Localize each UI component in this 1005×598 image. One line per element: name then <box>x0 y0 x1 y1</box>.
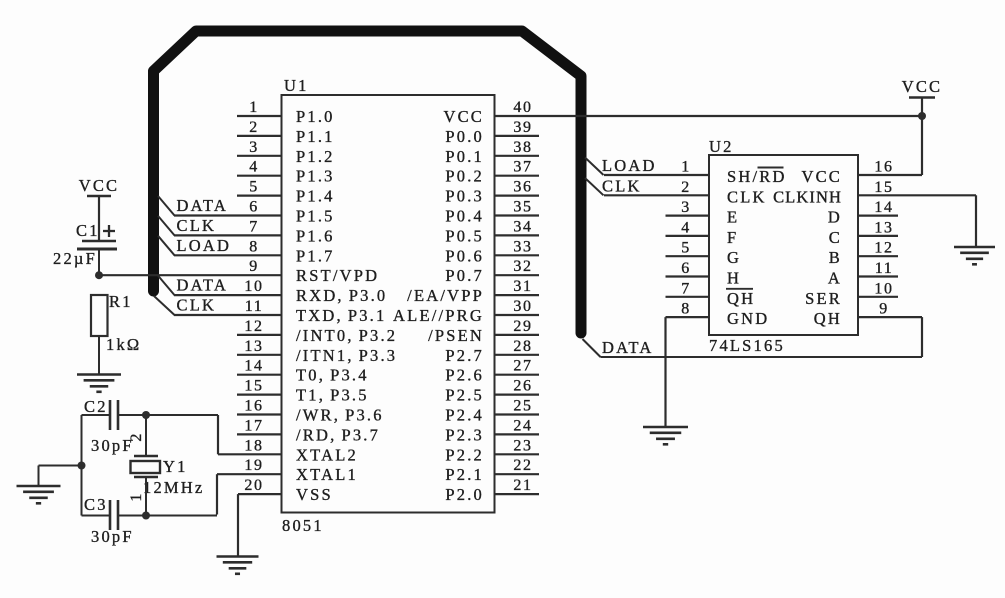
svg-text:9: 9 <box>879 301 889 318</box>
svg-text:31: 31 <box>513 278 532 295</box>
svg-text:40: 40 <box>513 99 532 116</box>
svg-text:GND: GND <box>727 309 769 328</box>
svg-text:8: 8 <box>681 301 691 318</box>
U2 pin 11 (A) <box>828 260 898 288</box>
node: rail/ground junction <box>78 462 86 470</box>
svg-text:/ITN1,P3.3: /ITN1,P3.3 <box>296 346 397 365</box>
svg-text:P0.1: P0.1 <box>445 147 484 166</box>
svg-text:QH: QH <box>727 289 755 308</box>
U1 pin 33 (P0.6) <box>445 238 539 265</box>
U1 pin 24 (P2.3) <box>445 417 539 444</box>
U1 pin 12 (/INT0,<tspan dx="5">P3.2</tspan>) <box>237 318 397 345</box>
svg-text:35: 35 <box>513 199 532 216</box>
svg-text:SER: SER <box>805 289 842 308</box>
svg-text:1: 1 <box>249 99 259 116</box>
svg-text:P2.6: P2.6 <box>445 366 484 385</box>
U1 pin 17 (/RD,<tspan dx="5">P3.7</tspan>) <box>237 417 380 444</box>
svg-text:9: 9 <box>249 258 259 275</box>
U1 pin 11 (TXD,<tspan dx="5">P3.1</tspan>) <box>174 298 386 325</box>
svg-text:P1.2: P1.2 <box>296 147 335 166</box>
svg-text:P1.4: P1.4 <box>296 187 335 206</box>
U1 pin 18 (XTAL2) <box>218 415 358 464</box>
svg-text:TXD,P3.1: TXD,P3.1 <box>296 306 386 325</box>
svg-text:P2.0: P2.0 <box>445 485 484 504</box>
svg-text:B: B <box>829 248 842 267</box>
svg-text:24: 24 <box>513 417 532 434</box>
U1 pin 26 (P2.5) <box>445 378 539 405</box>
svg-text:LOAD: LOAD <box>177 236 232 255</box>
svg-text:12MHz: 12MHz <box>143 478 204 497</box>
svg-text:6: 6 <box>681 260 691 277</box>
U2 pin 13 (C) <box>829 219 898 247</box>
svg-text:P2.4: P2.4 <box>445 406 484 425</box>
wire: DATA return from U2 pin 9 <box>601 356 923 358</box>
svg-text:VCC: VCC <box>902 77 943 96</box>
wire: top loop to XTAL2 <box>146 414 218 416</box>
IC U1: 8051 microcontroller body <box>282 95 495 513</box>
svg-text:P0.4: P0.4 <box>445 207 484 226</box>
svg-text:P1.0: P1.0 <box>296 107 335 126</box>
svg-text:19: 19 <box>244 457 263 474</box>
svg-text:8: 8 <box>249 238 259 255</box>
svg-text:1kΩ: 1kΩ <box>106 335 141 354</box>
svg-text:5: 5 <box>249 179 259 196</box>
U1 pin 5 (P1.4) <box>237 179 335 206</box>
svg-text:C3: C3 <box>84 495 108 514</box>
svg-text:CLK: CLK <box>602 177 642 196</box>
svg-text:8051: 8051 <box>282 516 324 535</box>
svg-text:P2.3: P2.3 <box>445 425 484 444</box>
wire: ground tap from left rail <box>39 465 82 467</box>
capacitor C3 30pF <box>82 495 147 530</box>
ground (U2 GND pin 8) <box>643 427 688 444</box>
U1 pin 4 (P1.3) <box>237 159 335 186</box>
svg-text:22µF: 22µF <box>53 249 97 268</box>
svg-text:CLKINH: CLKINH <box>773 187 842 206</box>
svg-text:VCC: VCC <box>79 176 120 195</box>
svg-text:ALE//PRG: ALE//PRG <box>393 306 484 325</box>
U1 pin 32 (P0.7) <box>445 258 539 285</box>
capacitor C1 (electrolytic 22uF) <box>76 221 117 249</box>
capacitor C2 30pF <box>82 397 147 430</box>
svg-text:10: 10 <box>874 280 893 297</box>
svg-text:16: 16 <box>244 398 263 415</box>
svg-text:29: 29 <box>513 318 532 335</box>
svg-text:U1: U1 <box>284 76 309 95</box>
svg-text:12: 12 <box>874 240 893 257</box>
U1 pin 6 (P1.5) <box>174 199 335 226</box>
U2 pin 6 (H) <box>666 260 742 288</box>
svg-text:22: 22 <box>513 457 532 474</box>
U2 pin 12 (B) <box>829 240 898 268</box>
svg-text:RST/VPD: RST/VPD <box>296 266 379 285</box>
wire: bus branch DATA to U1 pin 6 <box>158 196 175 216</box>
svg-text:32: 32 <box>513 258 532 275</box>
wire: bottom loop to XTAL1 riser <box>146 515 217 517</box>
svg-text:/EA/VPP: /EA/VPP <box>407 286 484 305</box>
svg-text:2: 2 <box>249 119 259 136</box>
U2 pin 8 (GND) <box>666 301 770 427</box>
svg-text:38: 38 <box>513 139 532 156</box>
U2 pin 9 (QH) <box>814 301 922 357</box>
U2 pin 5 (G) <box>666 240 742 268</box>
svg-text:28: 28 <box>513 338 532 355</box>
U1 pin 37 (P0.2) <box>445 159 539 186</box>
svg-text:14: 14 <box>244 358 263 375</box>
svg-text:SH/RD: SH/RD <box>727 167 787 186</box>
svg-text:DATA: DATA <box>177 276 228 295</box>
svg-text:7: 7 <box>249 218 259 235</box>
svg-text:11: 11 <box>245 298 264 315</box>
svg-text:H: H <box>727 269 741 288</box>
power symbol VCC (right) <box>902 77 943 98</box>
svg-text:1: 1 <box>681 159 691 176</box>
U1 pin 8 (P1.7) <box>174 238 335 265</box>
svg-text:26: 26 <box>513 378 532 395</box>
U2 pin 14 (D) <box>828 199 898 227</box>
svg-text:11: 11 <box>875 260 894 277</box>
svg-text:74LS165: 74LS165 <box>709 336 785 355</box>
U1 pin 35 (P0.4) <box>445 199 539 226</box>
U1 pin 21 (P2.0) <box>445 477 539 504</box>
ground (below R1) <box>77 375 121 392</box>
U1 pin 3 (P1.2) <box>237 139 335 166</box>
node: VCC rail junction <box>918 112 926 120</box>
svg-text:33: 33 <box>513 238 532 255</box>
U2 pin 7 (QH) <box>666 280 756 308</box>
U2 pin 2 (CLK) <box>604 179 767 207</box>
svg-text:R1: R1 <box>109 292 133 311</box>
resistor R1 <box>91 292 133 336</box>
svg-text:2: 2 <box>681 179 691 196</box>
svg-text:30: 30 <box>513 298 532 315</box>
svg-text:E: E <box>727 208 739 227</box>
svg-text:/WR,P3.6: /WR,P3.6 <box>296 406 384 425</box>
U1 pin 30 (ALE//PRG) <box>393 298 539 325</box>
wire: bus branch DATA (bottom) <box>583 339 601 357</box>
U2 pin 10 (SER) <box>805 280 898 308</box>
IC U2: 74LS165 shift register body <box>709 155 858 335</box>
svg-text:15: 15 <box>244 378 263 395</box>
power symbol VCC (left) <box>79 176 120 240</box>
U1 pin 13 (/ITN1,<tspan dx="5">P3.3</tspan>) <box>237 338 397 365</box>
svg-text:3: 3 <box>681 199 691 216</box>
svg-text:CLK: CLK <box>727 187 767 206</box>
U1 pin 16 (/WR,<tspan dx="5">P3.6</tspan>) <box>237 398 384 425</box>
svg-text:2: 2 <box>128 431 145 441</box>
svg-text:P1.7: P1.7 <box>296 246 335 265</box>
svg-text:DATA: DATA <box>177 196 228 215</box>
wire down to ground <box>38 466 40 487</box>
U1 pin 39 (P0.0) <box>445 119 539 146</box>
U2 pin 16 (VCC) <box>801 98 922 187</box>
svg-text:P1.5: P1.5 <box>296 207 335 226</box>
svg-text:CLK: CLK <box>177 216 217 235</box>
svg-text:30pF: 30pF <box>91 527 134 546</box>
svg-text:C: C <box>829 228 842 247</box>
svg-text:13: 13 <box>874 219 893 236</box>
svg-text:21: 21 <box>513 477 532 494</box>
svg-text:3: 3 <box>249 139 259 156</box>
U1 pin 1 (P1.0) <box>237 99 335 126</box>
crystal Y1 12MHz <box>131 456 161 477</box>
wire: left rail of crystal loop <box>81 415 83 516</box>
U1 pin 23 (P2.2) <box>445 437 539 464</box>
wire crystal bottom lead <box>145 477 147 516</box>
node: C2/crystal top junction <box>142 411 150 419</box>
svg-text:P2.2: P2.2 <box>445 445 484 464</box>
U1 pin 40 (VCC) <box>443 99 922 126</box>
node: junction C1/R1/RST <box>95 271 103 279</box>
svg-text:/INT0,P3.2: /INT0,P3.2 <box>296 326 397 345</box>
svg-text:27: 27 <box>513 358 532 375</box>
ground (VSS pin 20) <box>217 557 259 574</box>
svg-text:16: 16 <box>874 159 893 176</box>
U2 pin 3 (E) <box>666 199 740 227</box>
U1 pin 27 (P2.6) <box>445 358 539 385</box>
svg-text:1: 1 <box>128 491 145 501</box>
U2 pin 15 (CLKINH) <box>773 179 976 247</box>
U1 pin 10 (RXD,<tspan dx="5">P3.0</tspan>) <box>174 278 387 305</box>
svg-text:RXD,P3.0: RXD,P3.0 <box>296 286 387 305</box>
svg-text:7: 7 <box>681 280 691 297</box>
U1 pin 25 (P2.4) <box>445 398 539 425</box>
svg-text:5: 5 <box>681 240 691 257</box>
ground (crystal loop) <box>17 486 61 503</box>
U1 pin 34 (P0.5) <box>445 218 539 245</box>
U1 pin 7 (P1.6) <box>174 218 335 245</box>
svg-text:37: 37 <box>513 159 532 176</box>
svg-text:18: 18 <box>244 437 263 454</box>
svg-text:F: F <box>727 228 738 247</box>
U1 pin 31 (/EA/VPP) <box>407 278 539 305</box>
U1 pin 36 (P0.3) <box>445 179 539 206</box>
wire C1 to junction <box>98 249 100 276</box>
svg-text:D: D <box>828 208 842 227</box>
svg-text:XTAL1: XTAL1 <box>296 465 358 484</box>
svg-text:P2.5: P2.5 <box>445 386 484 405</box>
svg-text:13: 13 <box>244 338 263 355</box>
svg-text:14: 14 <box>874 199 893 216</box>
U1 pin 15 (T1,<tspan dx="5">P3.5</tspan>) <box>237 378 369 405</box>
wire R1 to ground <box>98 336 100 375</box>
wire crystal top lead <box>145 415 147 456</box>
svg-text:QH: QH <box>814 309 842 328</box>
svg-text:36: 36 <box>513 179 532 196</box>
U2 pin 4 (F) <box>666 219 739 247</box>
svg-text:VCC: VCC <box>801 167 842 186</box>
wire: bus branch CLK to U1 pin 7 <box>158 216 175 236</box>
svg-text:10: 10 <box>244 278 263 295</box>
svg-text:P1.3: P1.3 <box>296 167 335 186</box>
svg-text:4: 4 <box>249 159 259 176</box>
wire: bus branch CLK to U2 pin 2 <box>585 178 604 195</box>
svg-text:6: 6 <box>249 199 259 216</box>
svg-text:C1: C1 <box>76 221 100 240</box>
svg-text:CLK: CLK <box>177 296 217 315</box>
U1 pin 22 (P2.1) <box>445 457 539 484</box>
U1 pin 38 (P0.1) <box>445 139 539 166</box>
wire: bus branch LOAD to U2 pin 1 <box>585 158 604 176</box>
svg-text:P0.5: P0.5 <box>445 226 484 245</box>
U1 pin 19 (XTAL1) <box>217 457 358 514</box>
node: C3/crystal bottom junction <box>142 512 150 520</box>
svg-text:25: 25 <box>513 398 532 415</box>
svg-text:U2: U2 <box>709 137 734 156</box>
U1 pin 28 (P2.7) <box>445 338 539 365</box>
svg-text:P0.3: P0.3 <box>445 187 484 206</box>
svg-text:P0.2: P0.2 <box>445 167 484 186</box>
U1 pin 20 (VSS) <box>238 477 333 556</box>
svg-text:15: 15 <box>874 179 893 196</box>
svg-text:23: 23 <box>513 437 532 454</box>
svg-text:T0,P3.4: T0,P3.4 <box>296 366 369 385</box>
svg-text:VSS: VSS <box>296 485 333 504</box>
svg-text:34: 34 <box>513 218 532 235</box>
svg-text:12: 12 <box>244 318 263 335</box>
svg-text:4: 4 <box>681 219 691 236</box>
svg-text:G: G <box>727 248 741 267</box>
svg-text:A: A <box>828 269 842 288</box>
svg-text:39: 39 <box>513 119 532 136</box>
svg-text:XTAL2: XTAL2 <box>296 445 358 464</box>
svg-text:P2.1: P2.1 <box>445 465 484 484</box>
wire: bus branch DATA to U1 pin 10 <box>158 276 175 296</box>
svg-text:P1.6: P1.6 <box>296 226 335 245</box>
svg-text:P0.6: P0.6 <box>445 246 484 265</box>
U1 pin 2 (P1.1) <box>237 119 335 146</box>
svg-text:P0.0: P0.0 <box>445 127 484 146</box>
U1 pin 14 (T0,<tspan dx="5">P3.4</tspan>) <box>237 358 369 385</box>
svg-text:Y1: Y1 <box>163 457 188 476</box>
svg-text:20: 20 <box>244 477 263 494</box>
svg-text:P2.7: P2.7 <box>445 346 484 365</box>
ground (U2 CLKINH pin 15) <box>954 247 995 264</box>
wire: bus branch CLK to U1 pin 11 <box>154 296 175 315</box>
U1 pin 9 (RST/VPD) <box>99 258 379 285</box>
svg-text:P1.1: P1.1 <box>296 127 335 146</box>
svg-text:/PSEN: /PSEN <box>428 326 484 345</box>
svg-text:LOAD: LOAD <box>602 156 657 175</box>
wire: bus branch LOAD to U1 pin 8 <box>158 236 175 256</box>
svg-text:P0.7: P0.7 <box>445 266 484 285</box>
U2 pin 1 (SH/RD) <box>604 159 787 187</box>
wire: thick bus net (DATA/CLK/LOAD harness) <box>154 31 582 333</box>
svg-text:C2: C2 <box>84 397 108 416</box>
svg-text:17: 17 <box>244 417 263 434</box>
U1 pin 29 (/PSEN) <box>428 318 539 345</box>
svg-text:DATA: DATA <box>602 338 653 357</box>
svg-text:VCC: VCC <box>443 107 484 126</box>
svg-text:T1,P3.5: T1,P3.5 <box>296 386 369 405</box>
